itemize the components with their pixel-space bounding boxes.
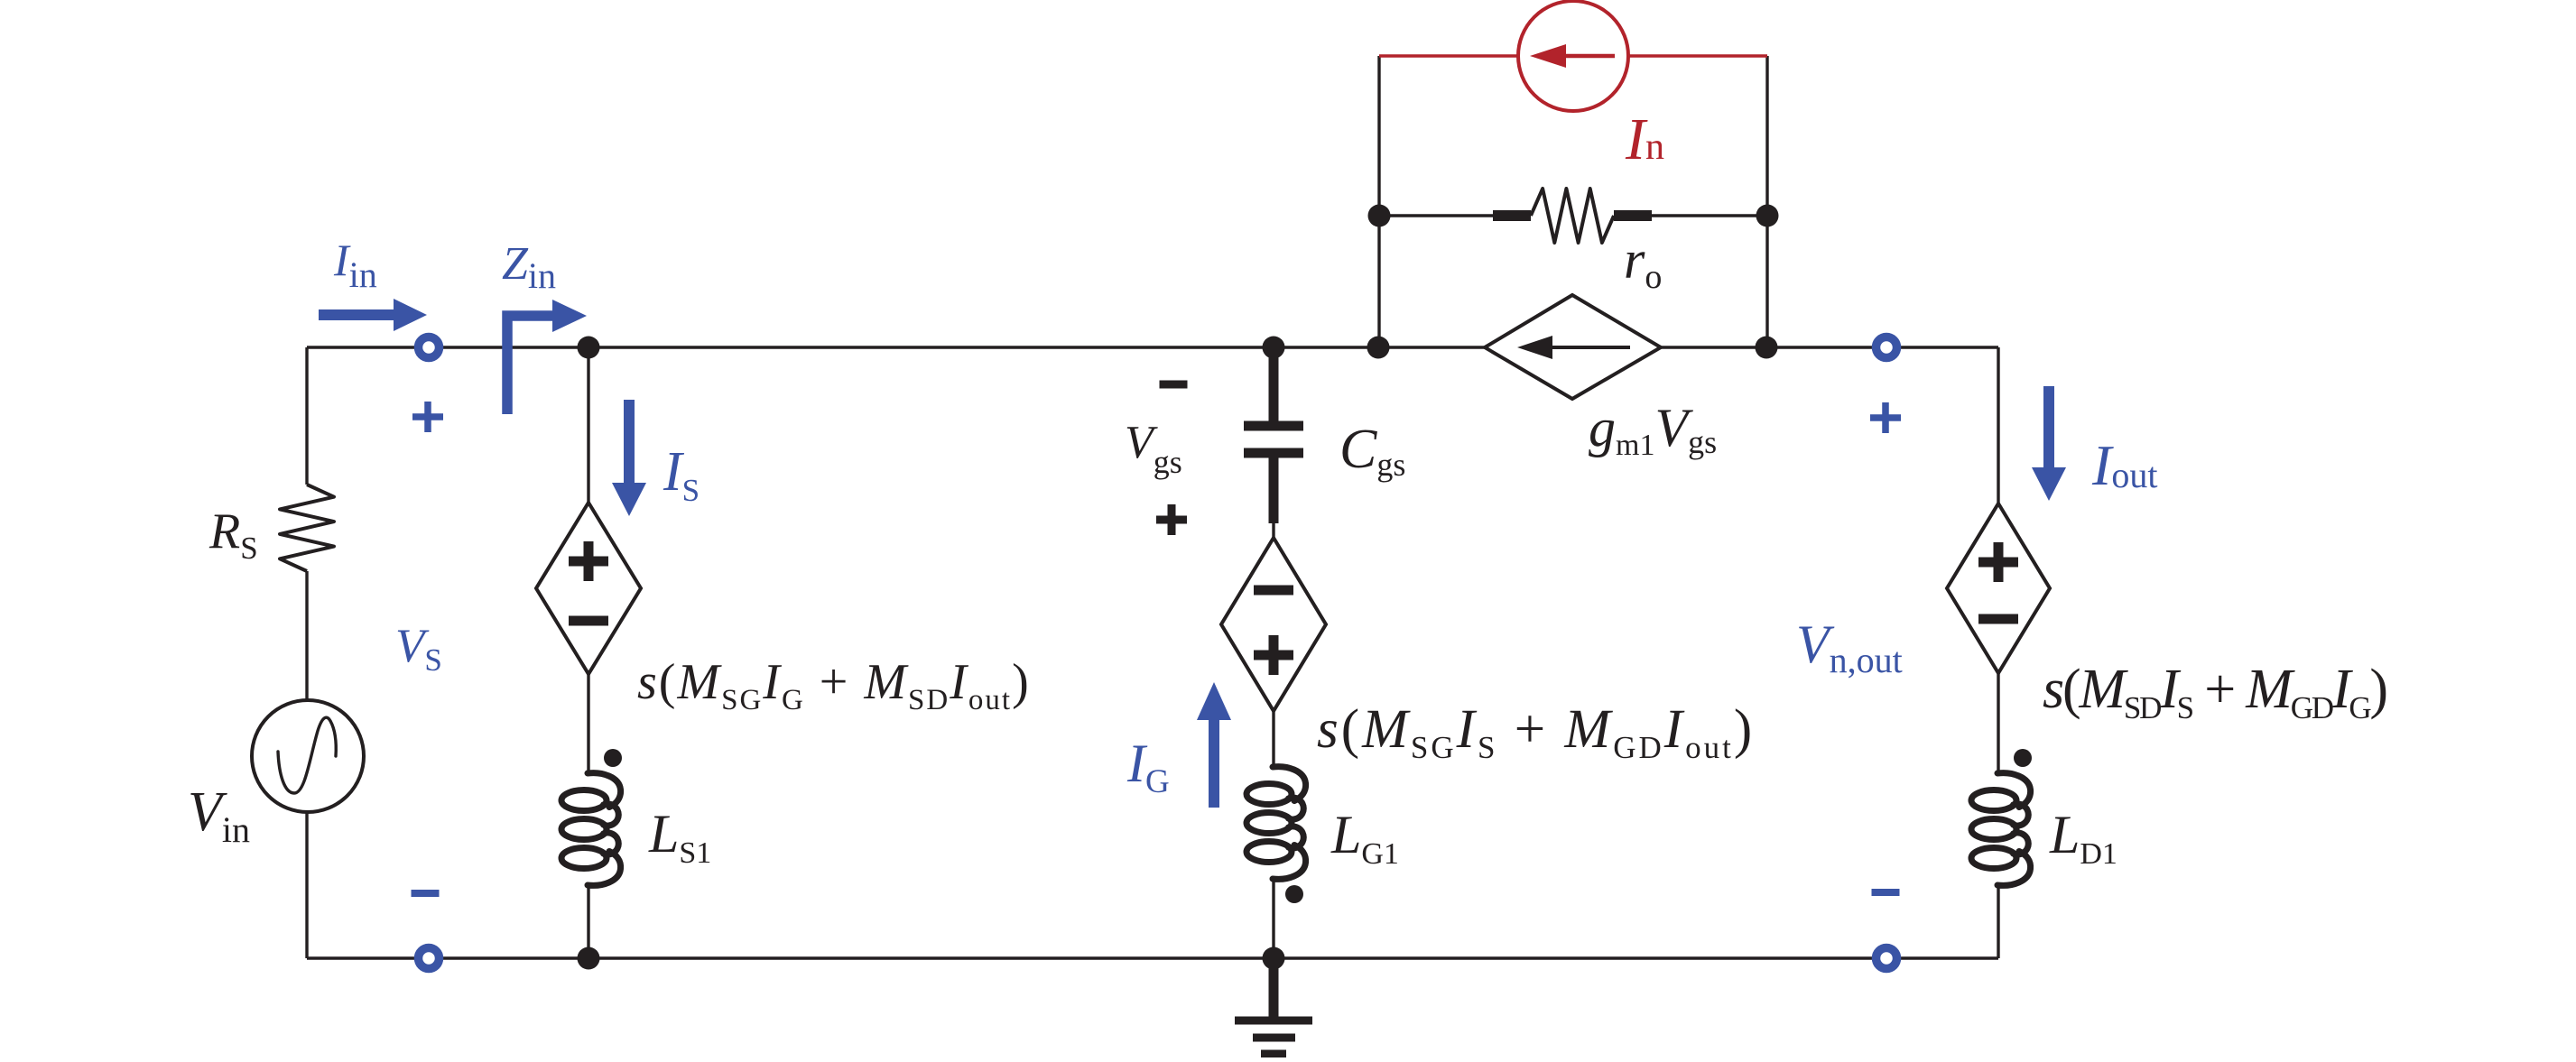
- resistor RS: [280, 485, 334, 571]
- IG arrow: [1209, 719, 1219, 808]
- terminal ring (2090,385): [1876, 337, 1897, 358]
- LG1 dot: [1285, 885, 1303, 903]
- current source In: [1518, 1, 1628, 111]
- LS1 dot: [604, 749, 622, 767]
- node dot (1528,239): [1368, 205, 1391, 227]
- node dot (1411,385): [1263, 337, 1285, 359]
- wire In loop right riser: [1765, 56, 1768, 347]
- capacitor Cgs: [1244, 347, 1303, 523]
- Vin sine: [278, 717, 336, 793]
- plus Vgs: [1156, 504, 1187, 535]
- ground: [1235, 958, 1312, 1054]
- LD1 dot: [2014, 749, 2032, 767]
- inductor LG1 coil: [1246, 767, 1306, 880]
- minus Vgs: [1160, 381, 1188, 389]
- wire In loop left riser: [1377, 56, 1380, 347]
- node dot (1957,385): [1756, 337, 1778, 359]
- Iin arrow: [319, 309, 395, 320]
- wire ro rail: [1379, 214, 1767, 217]
- wire right rail: [1997, 347, 1999, 958]
- wire source branch: [587, 347, 589, 958]
- plus Vnout: [1870, 402, 1901, 433]
- resistor ro: [1493, 210, 1531, 221]
- IS arrow: [624, 400, 635, 484]
- terminal ring (475,385): [419, 337, 440, 358]
- plus VS: [412, 402, 443, 432]
- wire bottom rail: [307, 956, 1998, 959]
- terminal ring (475,1062): [419, 948, 440, 969]
- inductor LS1 coil: [561, 773, 621, 886]
- dependent source D1: [536, 503, 641, 674]
- Zin arrow: [507, 316, 554, 414]
- inductor LD1 coil: [1971, 773, 2031, 886]
- svg-text:s(MSDIS + MGDIG): s(MSDIS + MGDIG): [2043, 659, 2386, 725]
- wire top rail: [307, 346, 1998, 348]
- node dot (1411,1062): [1263, 947, 1285, 970]
- voltage source Vin: [252, 700, 364, 812]
- wire gate branch: [1272, 522, 1274, 958]
- wire In red top: [1379, 54, 1767, 57]
- node dot (1527,385): [1367, 337, 1390, 359]
- minus Vnout: [1872, 889, 1900, 896]
- dependent source D4: [1947, 503, 2050, 673]
- node dot (652,1062): [578, 947, 600, 970]
- wire left rail: [305, 347, 308, 958]
- dependent source D2: [1221, 538, 1326, 711]
- node dot (652,385): [578, 337, 600, 359]
- dependent current source D3 gm1Vgs: [1485, 295, 1661, 399]
- minus VS: [412, 890, 440, 897]
- Iout arrow: [2043, 386, 2054, 468]
- node dot (1958,239): [1756, 205, 1779, 227]
- terminal ring (2090,1062): [1876, 948, 1897, 969]
